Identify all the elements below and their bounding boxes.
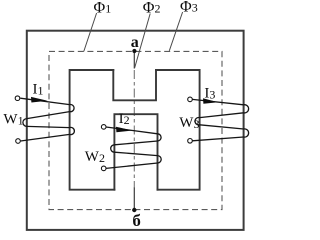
svg-text:I3: I3 bbox=[204, 85, 215, 101]
svg-text:W1: W1 bbox=[3, 111, 23, 127]
svg-text:W3: W3 bbox=[179, 115, 199, 131]
svg-text:Φ1: Φ1 bbox=[94, 0, 112, 16]
svg-text:Φ2: Φ2 bbox=[143, 0, 161, 17]
svg-text:Φ3: Φ3 bbox=[180, 0, 198, 16]
svg-text:б: б bbox=[132, 211, 141, 230]
svg-text:W2: W2 bbox=[85, 149, 105, 165]
svg-text:a: a bbox=[131, 34, 139, 51]
svg-text:I2: I2 bbox=[119, 111, 130, 127]
svg-text:I1: I1 bbox=[33, 81, 44, 97]
